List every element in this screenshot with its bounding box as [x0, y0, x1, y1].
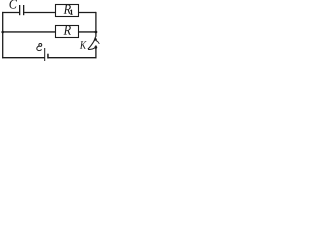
wire top (capacitor to R1 box) [24, 12, 55, 14]
resistor R1 box [56, 5, 79, 17]
node right junction [95, 31, 98, 34]
label C [9, 0, 17, 9]
switch pivot dot [94, 46, 97, 49]
switch arrowhead [93, 36, 97, 41]
switch blade foot to pivot [88, 48, 95, 50]
node left junction [1, 31, 4, 34]
battery short plate [47, 54, 49, 59]
wire bottom (left corner to battery) [2, 57, 44, 59]
wire left vertical [2, 12, 4, 58]
wire right vertical (switch dot to bottom-right corner) [95, 45, 97, 58]
wire right vertical (corner down to switch arrow) [95, 12, 97, 37]
label EMF script E [39, 43, 42, 46]
wire middle branch (left junction to R box) [3, 31, 56, 33]
wire bottom (battery to bottom-right corner) [48, 57, 97, 59]
switch arc tail [96, 41, 99, 44]
wire top (R1 box to top-right corner) [79, 12, 96, 14]
label K [80, 41, 87, 49]
switch K blade [88, 40, 95, 49]
wire middle branch (R box to right junction) [79, 31, 96, 33]
label R1 [64, 5, 71, 14]
battery long plate [44, 48, 45, 61]
wire top (left corner to capacitor) [2, 12, 19, 14]
resistor R box [56, 26, 79, 38]
label R [64, 25, 71, 34]
capacitor C plates [19, 5, 20, 15]
